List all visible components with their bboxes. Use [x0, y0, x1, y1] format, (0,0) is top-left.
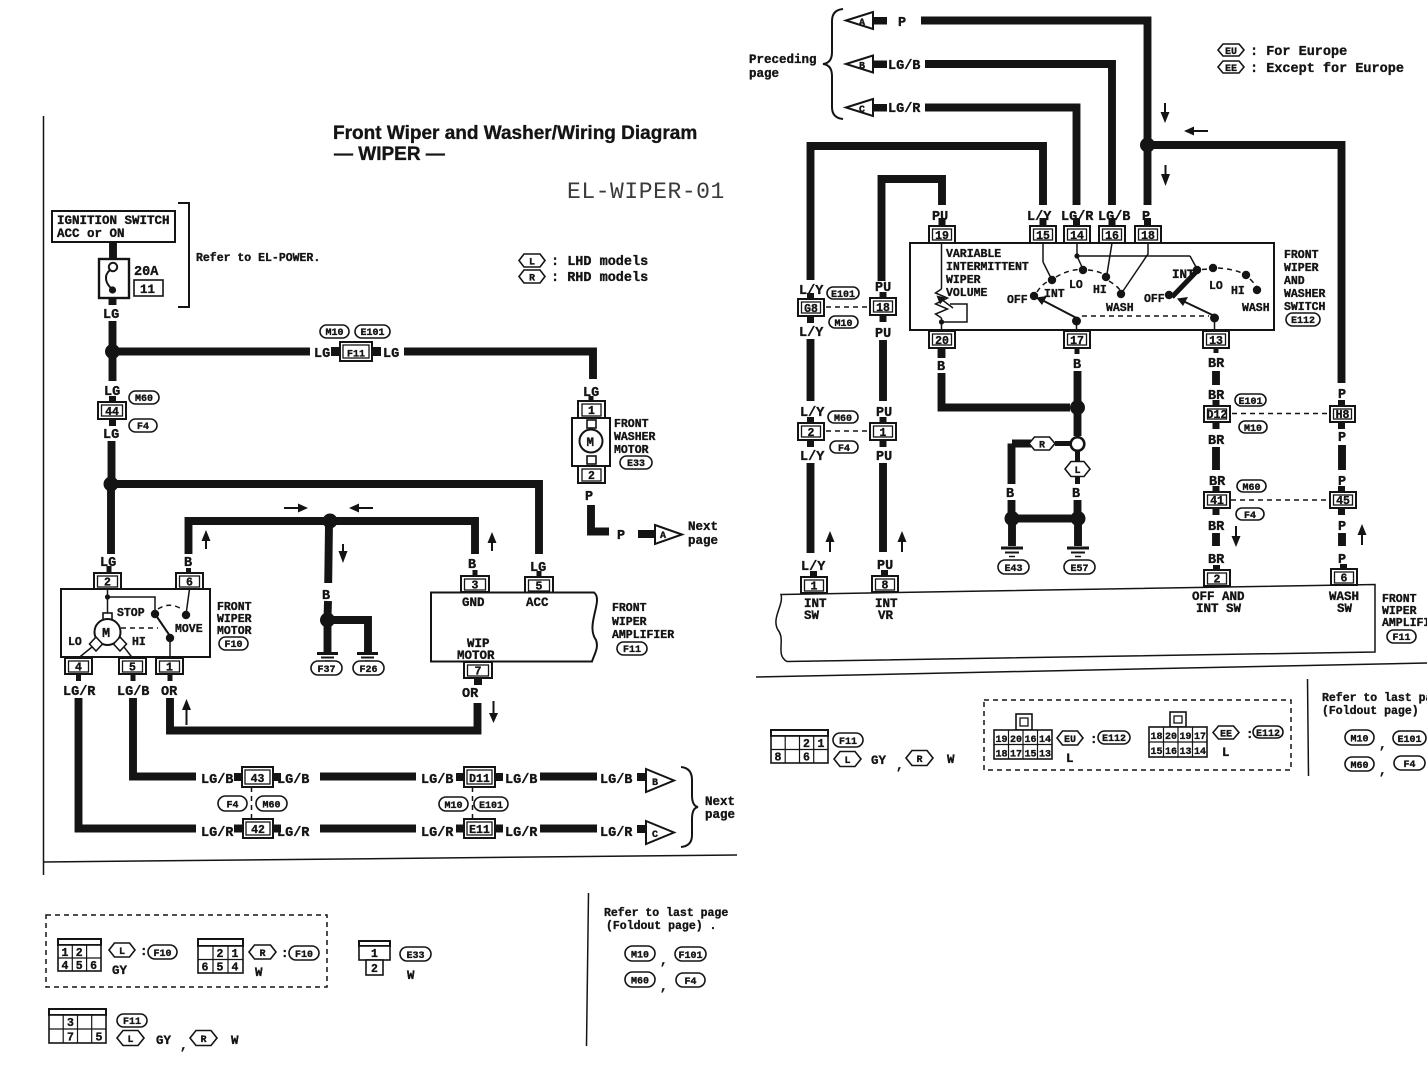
arrow down on P: [1161, 165, 1170, 186]
svg-text:LG: LG: [314, 347, 330, 362]
svg-text:19: 19: [996, 735, 1008, 746]
svg-text:E57: E57: [1070, 564, 1088, 575]
R hexagon connector: [1012, 437, 1070, 452]
front wiper motor box F10: [61, 589, 210, 657]
svg-text:WIPER: WIPER: [946, 274, 981, 287]
wiper motor internals: M motor: [68, 589, 203, 658]
svg-text:L: L: [1222, 746, 1230, 760]
svg-text:PU: PU: [875, 327, 891, 342]
svg-text:,: ,: [180, 1039, 188, 1053]
svg-text:14: 14: [1070, 230, 1084, 243]
svg-text:LG/B: LG/B: [117, 685, 149, 700]
svg-text:E101: E101: [1397, 735, 1421, 746]
svg-text:E11: E11: [469, 824, 490, 837]
svg-text:13: 13: [1209, 335, 1223, 348]
svg-text:43: 43: [251, 773, 265, 786]
svg-text:OFF: OFF: [1007, 294, 1028, 307]
front washer motor E33: [572, 401, 656, 483]
svg-text:44: 44: [105, 406, 119, 419]
L hexagon F10: [109, 943, 135, 957]
wire F11 to washer motor: [404, 352, 593, 380]
svg-text:WIPER: WIPER: [1284, 262, 1319, 275]
svg-text:M60: M60: [135, 394, 153, 405]
connector F11 face: [49, 1009, 106, 1045]
pin 13: [1203, 331, 1229, 348]
svg-text:2: 2: [808, 427, 815, 440]
arrow up PU: [898, 531, 907, 552]
E112 oval EU: [1098, 731, 1130, 744]
svg-text:INTERMITTENT: INTERMITTENT: [946, 261, 1029, 274]
svg-text:F4: F4: [1244, 511, 1256, 522]
svg-text:1: 1: [811, 581, 818, 594]
svg-text:SW: SW: [804, 609, 820, 623]
svg-text:AMPLIFIER: AMPLIFIER: [1382, 617, 1427, 630]
svg-text:6: 6: [202, 962, 209, 975]
connector E112 EE face: [1149, 712, 1207, 758]
pin 1 wiper motor: [156, 658, 183, 675]
pin 20: [929, 331, 955, 348]
F10 oval: [148, 945, 177, 959]
svg-text:20: 20: [935, 335, 949, 348]
svg-text:15: 15: [1151, 747, 1163, 758]
svg-text:WASH: WASH: [1242, 302, 1270, 315]
svg-text:,: ,: [660, 980, 668, 994]
svg-text:F37: F37: [317, 665, 335, 676]
svg-text:Front Wiper and Washer/Wiring: Front Wiper and Washer/Wiring Diagram: [333, 123, 697, 144]
svg-text:IGNITION SWITCH: IGNITION SWITCH: [57, 214, 170, 228]
svg-text:SWITCH: SWITCH: [1284, 301, 1326, 314]
svg-text:F11: F11: [347, 350, 365, 361]
svg-text:M10: M10: [1244, 424, 1262, 435]
svg-text:R: R: [529, 274, 535, 285]
junction P wire: [1140, 138, 1155, 153]
svg-text:AND: AND: [1284, 275, 1305, 288]
svg-text:B: B: [322, 589, 330, 604]
variable intermittent wiper volume label: [946, 248, 1029, 300]
svg-text:M10: M10: [444, 801, 462, 812]
refer to last page left: [604, 907, 728, 994]
arrow A from preceding page: [846, 12, 906, 31]
connector D12: [1204, 400, 1230, 429]
svg-text:LO: LO: [1209, 280, 1223, 293]
right switch dashed arc: [1202, 268, 1208, 271]
arrow down on P above junction: [1161, 103, 1170, 123]
svg-text:L: L: [1074, 466, 1080, 477]
svg-text:BR: BR: [1208, 434, 1225, 449]
svg-text:OR: OR: [161, 685, 178, 700]
connector F10 RHD face: [198, 939, 243, 975]
F4 oval BR: [1236, 508, 1264, 520]
E101 oval: [827, 287, 859, 299]
wire B run y520: [189, 521, 476, 554]
dashed box F10 connectors: [46, 915, 327, 987]
svg-text:F10: F10: [224, 640, 242, 651]
svg-text:42: 42: [251, 824, 265, 837]
ignition switch box: [52, 211, 175, 242]
EE hexagon: [1213, 726, 1239, 739]
wire junction to F11 connector: [112, 348, 310, 356]
right switch contacts: [1165, 291, 1173, 299]
svg-text:ACC: ACC: [526, 596, 549, 610]
front wiper motor label F10: [217, 601, 252, 651]
svg-text:16: 16: [1025, 735, 1037, 746]
next page arrow C: [637, 821, 674, 844]
svg-text:13: 13: [1180, 747, 1192, 758]
svg-text:WIPER: WIPER: [612, 616, 647, 629]
svg-text:2: 2: [588, 470, 595, 483]
svg-text:L: L: [844, 756, 850, 767]
svg-text:17: 17: [1010, 750, 1022, 761]
svg-text:LO: LO: [68, 636, 82, 649]
svg-text:F11: F11: [123, 1017, 141, 1028]
svg-text:1: 1: [818, 738, 825, 751]
amp pin 6: [1329, 564, 1359, 616]
F11 oval face right: [833, 733, 863, 747]
svg-text:L: L: [127, 1035, 133, 1046]
svg-text:R: R: [916, 755, 922, 766]
svg-text:LG/R: LG/R: [63, 685, 96, 700]
wire LG/R from pin4 to row: [76, 674, 81, 681]
wire ignition to fuse: [109, 242, 117, 260]
svg-text:D11: D11: [469, 773, 490, 786]
svg-text:page: page: [705, 808, 735, 822]
svg-text:W: W: [407, 969, 415, 983]
svg-text:E101: E101: [831, 290, 855, 301]
svg-text:2: 2: [104, 577, 111, 590]
svg-text:P: P: [1338, 431, 1346, 446]
svg-text:WASH: WASH: [1106, 302, 1134, 315]
OR wire pin7 to pin1: [168, 674, 173, 681]
arrow up at pin1: [182, 699, 191, 725]
svg-text:Preceding: Preceding: [749, 53, 817, 67]
svg-text:5: 5: [76, 960, 83, 973]
brace next page: [681, 767, 698, 847]
left switch lever arm: [1036, 296, 1081, 330]
pin 14: [1064, 218, 1090, 243]
svg-text:E112: E112: [1102, 734, 1126, 745]
svg-text:16: 16: [1165, 747, 1177, 758]
svg-text:HI: HI: [1231, 285, 1245, 298]
svg-text:LG/R: LG/R: [600, 826, 633, 841]
svg-text:VR: VR: [878, 609, 894, 623]
arrow up at pin6 drop: [202, 530, 211, 549]
svg-text:(Foldout page) .: (Foldout page) .: [1322, 705, 1427, 718]
svg-text:L/Y: L/Y: [799, 326, 824, 341]
svg-text:: LHD models: : LHD models: [551, 255, 648, 270]
svg-text:14: 14: [1039, 735, 1051, 746]
svg-text:WASHER: WASHER: [614, 431, 656, 444]
svg-text:B: B: [859, 62, 865, 73]
pin 19: [929, 218, 955, 243]
wire pin20 B down: [938, 348, 946, 358]
svg-text:6: 6: [90, 960, 97, 973]
wire P from A: [921, 21, 1148, 141]
svg-text:M60: M60: [834, 414, 852, 425]
wire 1 down to amp pin8: [879, 463, 887, 552]
F4 oval: [129, 419, 157, 432]
svg-text:VARIABLE: VARIABLE: [946, 248, 1001, 261]
svg-text:A: A: [859, 18, 865, 29]
svg-text:Next: Next: [705, 795, 735, 809]
svg-text:BR: BR: [1208, 357, 1225, 372]
svg-text::: :: [1246, 728, 1254, 742]
refer to last page right: [1322, 692, 1427, 778]
wire G8 down: [807, 339, 815, 401]
svg-text:M60: M60: [262, 801, 280, 812]
svg-text:F11: F11: [839, 737, 857, 748]
pin 5 ACC of amplifier: [525, 577, 553, 610]
bracket refer to EL-POWER: [178, 203, 189, 307]
E112 oval EE: [1253, 726, 1283, 738]
junction B run: [323, 514, 338, 529]
connector 43: [234, 767, 281, 787]
svg-text:F11: F11: [623, 645, 641, 656]
svg-text:W: W: [231, 1034, 239, 1048]
svg-text:GY: GY: [871, 754, 887, 768]
R hexagon right F11: [906, 751, 933, 766]
arrow down at junction drop: [339, 544, 348, 563]
R hexagon F11: [190, 1031, 217, 1046]
svg-text:LG/R: LG/R: [505, 826, 538, 841]
svg-text:HI: HI: [132, 636, 146, 649]
svg-text:F4: F4: [137, 422, 149, 433]
connector M10/E101 ovals: [320, 325, 390, 339]
E101 oval BR: [1235, 394, 1266, 406]
wire LG/B from pin5 to row: [131, 674, 136, 681]
open circle node: [1071, 437, 1085, 451]
svg-text:M10: M10: [1350, 735, 1368, 746]
svg-text:20: 20: [1165, 732, 1177, 743]
EE legend: [1218, 61, 1404, 77]
svg-text:L: L: [119, 947, 125, 958]
pin 6 wiper motor: [176, 573, 203, 590]
svg-text:M10: M10: [325, 328, 343, 339]
junction B right: [1070, 400, 1085, 415]
svg-text:8: 8: [882, 580, 889, 593]
svg-text:15: 15: [1036, 230, 1050, 243]
svg-text:F4: F4: [684, 977, 696, 988]
svg-text:2: 2: [803, 738, 810, 751]
svg-text:,: ,: [896, 759, 904, 773]
svg-text:18: 18: [1141, 230, 1155, 243]
connector G8: [798, 293, 824, 323]
variable resistor: [936, 243, 968, 330]
arrow left above P branch: [1184, 127, 1208, 136]
ground junction dot: [320, 613, 335, 628]
wire LY top run: [811, 146, 1044, 280]
svg-text:D12: D12: [1207, 409, 1228, 422]
wire LG/R from C: [925, 108, 1077, 206]
F11 oval face: [117, 1014, 147, 1027]
svg-text:E101: E101: [1238, 397, 1262, 408]
svg-text:PU: PU: [876, 450, 892, 465]
pin 15: [1030, 218, 1056, 243]
svg-text:1: 1: [880, 427, 887, 440]
svg-text:LG: LG: [103, 428, 119, 443]
svg-text:4: 4: [232, 962, 239, 975]
svg-text:E112: E112: [1256, 729, 1280, 740]
svg-text:17: 17: [1070, 335, 1084, 348]
pin 17: [1064, 331, 1090, 348]
svg-text:F101: F101: [678, 951, 702, 962]
arrow right on B run: [284, 504, 308, 513]
svg-text:,: ,: [1379, 738, 1387, 752]
svg-text:2: 2: [76, 947, 83, 960]
arrow down at pin7: [489, 701, 498, 723]
legend RHD models: [519, 270, 648, 286]
svg-text::: :: [281, 947, 289, 961]
svg-text:5: 5: [96, 1032, 103, 1045]
wire R hex down to ground E43: [1008, 444, 1016, 485]
arrow up P: [1358, 524, 1367, 545]
svg-text:MOTOR: MOTOR: [217, 625, 252, 638]
svg-text:,: ,: [1379, 764, 1387, 778]
svg-text:MOVE: MOVE: [175, 623, 203, 636]
svg-text:13: 13: [1039, 750, 1051, 761]
pin 18: [1135, 218, 1161, 243]
left switch wires from pins: [1042, 243, 1044, 262]
svg-text:W: W: [255, 966, 263, 980]
right switch wire from pin14 link: [1190, 256, 1196, 267]
EU hexagon: [1057, 731, 1083, 745]
svg-text:E101: E101: [479, 801, 503, 812]
svg-text:6: 6: [186, 577, 193, 590]
svg-text:(Foldout page) .: (Foldout page) .: [606, 920, 716, 933]
svg-text:18: 18: [1151, 732, 1163, 743]
M60 oval BR: [1237, 480, 1266, 492]
svg-text:E101: E101: [360, 328, 384, 339]
svg-text:EE: EE: [1225, 64, 1237, 75]
L hexagon right F11: [834, 752, 861, 767]
svg-text:E33: E33: [627, 459, 645, 470]
svg-text:A: A: [660, 531, 666, 542]
svg-text:INT SW: INT SW: [1196, 602, 1242, 616]
svg-text:page: page: [688, 534, 718, 548]
arrow down BR: [1232, 526, 1241, 547]
dashed link 41 to 45: [1231, 499, 1330, 501]
svg-text:E43: E43: [1004, 564, 1022, 575]
svg-text:INT: INT: [1044, 288, 1065, 301]
svg-text:4: 4: [75, 662, 82, 675]
connector E11: [456, 819, 503, 838]
wire pin17 B down: [1075, 348, 1080, 354]
svg-text:E33: E33: [406, 951, 424, 962]
right switch lever arrow: [1177, 297, 1219, 330]
M10 oval BR: [1239, 421, 1267, 433]
svg-text:45: 45: [1336, 495, 1350, 508]
WIP MOTOR amplifier box: [431, 593, 597, 662]
left switch contacts: [1030, 292, 1038, 300]
pin 4 wiper motor: [65, 658, 92, 675]
svg-text:LG/B: LG/B: [505, 773, 537, 788]
svg-text:M10: M10: [834, 319, 852, 330]
svg-text:EU: EU: [1225, 47, 1237, 58]
svg-text:17: 17: [1194, 732, 1206, 743]
pin 16: [1099, 218, 1125, 243]
amp pin 2: [1192, 565, 1245, 616]
arrow left on B run: [349, 504, 373, 513]
connector F10 LHD face: [58, 939, 101, 973]
svg-text:P: P: [898, 16, 906, 31]
ground E57: [1064, 548, 1095, 575]
svg-text:1: 1: [588, 405, 595, 418]
svg-text:B: B: [1006, 487, 1014, 502]
svg-text:R: R: [200, 1035, 206, 1046]
svg-text:Refer to last page: Refer to last page: [1322, 692, 1427, 705]
svg-text:LO: LO: [1069, 279, 1083, 292]
svg-text:LG/B: LG/B: [277, 773, 309, 788]
svg-text:F4: F4: [226, 801, 238, 812]
connector F11 face right: [771, 730, 828, 765]
connector F11 inline: [331, 342, 381, 361]
wire to grounds F37 F26: [324, 620, 332, 652]
pin 5 wiper motor: [119, 658, 146, 675]
connector D11: [456, 767, 503, 787]
wire PU top run: [882, 179, 943, 281]
connector 41: [1204, 486, 1230, 515]
svg-text:BR: BR: [1208, 520, 1225, 535]
svg-text:F10: F10: [153, 949, 171, 960]
svg-text:OR: OR: [462, 687, 479, 702]
arrow C from preceding page: [846, 99, 921, 117]
svg-text:R: R: [259, 949, 265, 960]
front wiper amplifier label F11: [612, 602, 674, 656]
svg-text:LG: LG: [103, 308, 119, 323]
svg-text:P: P: [585, 490, 593, 505]
connector 2: [798, 417, 824, 447]
svg-text:LG/R: LG/R: [421, 826, 454, 841]
svg-text:1: 1: [232, 948, 239, 961]
svg-text:11: 11: [140, 283, 155, 297]
arrow B from preceding page: [846, 56, 920, 75]
SECTION:FRAME: [43, 116, 45, 875]
svg-text:M: M: [102, 627, 110, 642]
svg-text:F11: F11: [1392, 633, 1410, 644]
junction LG lower: [104, 477, 119, 492]
svg-text:F4: F4: [838, 444, 850, 455]
svg-text:3: 3: [67, 1017, 74, 1030]
arrow up LY: [826, 531, 835, 552]
F4 oval: [830, 441, 858, 453]
left switch dashed arc: [1037, 281, 1049, 292]
connector 1: [870, 417, 896, 447]
connector H8: [1330, 400, 1355, 429]
svg-text:6: 6: [803, 752, 810, 765]
M10 oval: [829, 316, 858, 328]
svg-text:6: 6: [1341, 573, 1348, 586]
wire fuse to junction, label LG: [109, 298, 117, 305]
next page arrow A: [655, 520, 718, 548]
svg-text:H8: H8: [1336, 409, 1350, 422]
connector 18: [870, 292, 896, 322]
svg-text:WASHER: WASHER: [1284, 288, 1326, 301]
pin 2 wiper motor: [94, 573, 121, 590]
ground E43: [998, 548, 1029, 575]
svg-text:15: 15: [1025, 750, 1037, 761]
pin 7 WIP motor: [464, 662, 492, 685]
wire link two grounds: [1012, 515, 1078, 523]
svg-text:14: 14: [1194, 747, 1206, 758]
arrow up at pin3 drop: [488, 532, 497, 551]
svg-text:1: 1: [166, 662, 173, 675]
svg-text:41: 41: [1210, 495, 1224, 508]
EU legend: [1218, 44, 1347, 60]
svg-text:LG/B: LG/B: [201, 773, 233, 788]
svg-text:: Except for Europe: : Except for Europe: [1250, 62, 1404, 77]
connector 45: [1330, 486, 1356, 515]
svg-text:OFF: OFF: [1144, 293, 1165, 306]
svg-text:B: B: [937, 360, 945, 375]
